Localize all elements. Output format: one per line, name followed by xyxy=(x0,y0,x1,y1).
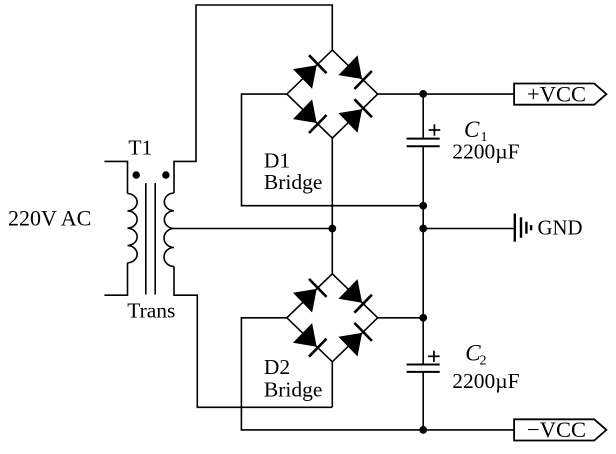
svg-text:D2: D2 xyxy=(264,355,290,379)
svg-text:+VCC: +VCC xyxy=(527,81,586,106)
svg-text:Bridge: Bridge xyxy=(264,170,323,194)
svg-text:T1: T1 xyxy=(128,136,152,160)
svg-text:Bridge: Bridge xyxy=(264,377,323,401)
svg-text:C: C xyxy=(464,117,480,142)
svg-text:2: 2 xyxy=(480,354,487,369)
svg-text:GND: GND xyxy=(538,217,583,240)
svg-text:Trans: Trans xyxy=(127,299,175,323)
svg-text:220V AC: 220V AC xyxy=(8,206,91,231)
svg-text:−VCC: −VCC xyxy=(527,417,586,442)
svg-text:1: 1 xyxy=(481,130,488,145)
svg-text:2200µF: 2200µF xyxy=(452,369,519,393)
